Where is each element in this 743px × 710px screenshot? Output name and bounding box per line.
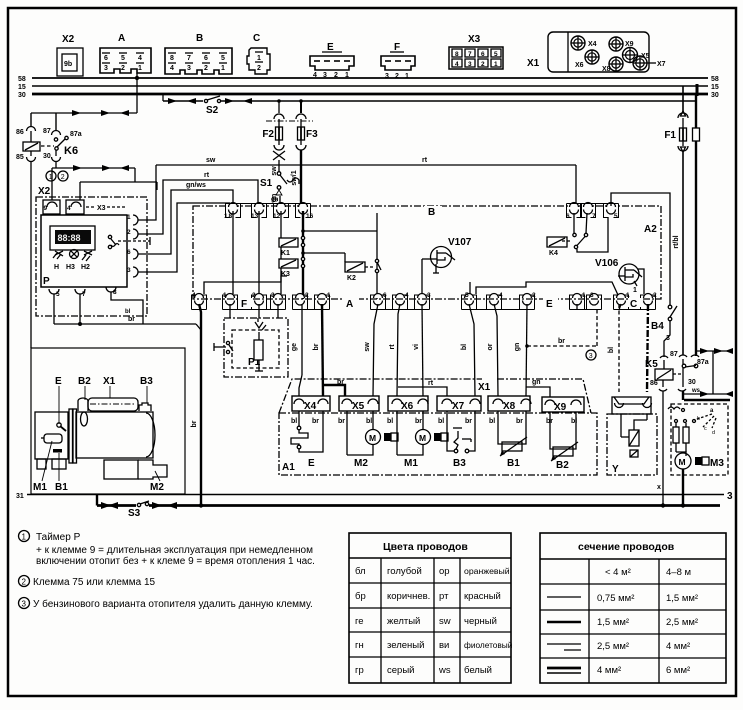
svg-text:2: 2 <box>532 292 536 299</box>
lamp H <box>53 251 63 271</box>
temp sensor B1 <box>489 411 527 469</box>
svg-text:B3: B3 <box>140 376 153 387</box>
svg-text:br: br <box>313 343 320 350</box>
svg-text:B: B <box>196 33 203 44</box>
wire rt <box>389 304 447 396</box>
svg-text:br: br <box>191 420 198 427</box>
connector X6 <box>388 396 428 412</box>
A2 top pin 18 <box>224 203 238 221</box>
svg-text:< 4 м²: < 4 м² <box>605 567 631 578</box>
svg-text:S1: S1 <box>260 178 273 189</box>
svg-text:4–8 м: 4–8 м <box>666 567 691 578</box>
A2 top pin 6 <box>566 203 579 221</box>
svg-text:1: 1 <box>221 65 225 72</box>
svg-text:bl: bl <box>291 418 297 425</box>
svg-text:58: 58 <box>18 76 26 83</box>
svg-text:P: P <box>43 276 50 287</box>
A2 internal hook wire left <box>204 276 287 294</box>
switch S2 line <box>163 94 697 116</box>
connector C <box>247 33 270 74</box>
svg-text:85: 85 <box>16 154 24 161</box>
K6 arrow wire lower <box>52 165 157 200</box>
svg-text:bl: bl <box>489 418 495 425</box>
wire colors table <box>349 533 513 683</box>
svg-text:+ к клемме 9 = длительная экс: + к клемме 9 = длительная эксплуатация п… <box>36 545 313 556</box>
switch B4 <box>651 305 677 357</box>
socket X8 <box>602 57 623 73</box>
svg-text:M: M <box>419 433 426 443</box>
connector X3 (top) <box>449 34 503 69</box>
svg-text:гн: гн <box>355 640 364 651</box>
svg-text:b: b <box>697 416 700 422</box>
svg-text:br: br <box>338 418 345 425</box>
svg-text:87: 87 <box>670 351 678 358</box>
svg-text:M1: M1 <box>33 482 47 493</box>
svg-text:2: 2 <box>61 174 65 181</box>
svg-text:ви: ви <box>439 640 449 651</box>
svg-text:2: 2 <box>127 229 131 236</box>
svg-text:d: d <box>712 430 715 436</box>
svg-text:4: 4 <box>170 65 174 72</box>
svg-text:3: 3 <box>590 292 594 299</box>
svg-text:1,5 мм²: 1,5 мм² <box>597 617 629 628</box>
lamp H3 <box>66 250 79 272</box>
svg-text:5: 5 <box>465 292 469 299</box>
svg-text:rt/bl: rt/bl <box>673 235 680 248</box>
svg-text:6 мм²: 6 мм² <box>666 665 690 676</box>
svg-text:H: H <box>54 264 59 271</box>
connector X5 <box>339 396 379 412</box>
junction dots S2 line <box>277 99 281 103</box>
heater body <box>35 398 167 479</box>
svg-text:B1: B1 <box>55 482 68 493</box>
connector A <box>100 33 151 73</box>
svg-text:bl: bl <box>461 344 468 350</box>
heater harness A1 box <box>279 413 597 475</box>
svg-text:7: 7 <box>468 51 472 58</box>
svg-text:ор: ор <box>439 566 450 577</box>
fuse F1 <box>664 86 688 355</box>
svg-text:Y: Y <box>612 464 619 475</box>
wire br thick pin4 down <box>191 304 201 505</box>
svg-text:30: 30 <box>18 92 26 99</box>
svg-text:коричнев.: коричнев. <box>387 591 430 602</box>
svg-text:A: A <box>118 33 125 44</box>
svg-text:K4: K4 <box>549 250 558 257</box>
wire sw <box>364 304 378 396</box>
svg-text:30: 30 <box>711 92 719 99</box>
note 3 <box>19 598 313 611</box>
svg-text:3: 3 <box>187 65 191 72</box>
svg-text:A: A <box>346 299 353 310</box>
svg-text:7: 7 <box>82 291 86 298</box>
wire S3 line with switch <box>97 494 720 519</box>
timer unit boundary <box>36 197 147 316</box>
socket X9 <box>609 37 634 51</box>
svg-text:3: 3 <box>323 72 327 79</box>
continuation arrows lower right <box>684 388 733 400</box>
A2 top pin 13 <box>251 203 264 221</box>
svg-text:br: br <box>415 418 422 425</box>
svg-text:rt: rt <box>422 157 428 164</box>
svg-text:1: 1 <box>127 214 131 221</box>
svg-text:A1: A1 <box>282 462 295 473</box>
svg-text:1: 1 <box>138 65 142 72</box>
svg-text:A2: A2 <box>644 224 657 235</box>
A2 top pin 5 <box>607 203 619 221</box>
svg-text:X3: X3 <box>97 205 106 212</box>
svg-text:1: 1 <box>22 533 27 542</box>
relay K6 <box>16 113 82 348</box>
svg-text:C: C <box>253 33 260 44</box>
svg-text:or: or <box>487 343 494 350</box>
svg-text:K1: K1 <box>281 250 290 257</box>
svg-text:B2: B2 <box>556 460 569 471</box>
svg-text:M: M <box>369 433 376 443</box>
svg-text:черный: черный <box>464 616 497 627</box>
svg-text:bl: bl <box>387 418 393 425</box>
svg-text:8: 8 <box>229 213 233 220</box>
heater pictorial labels <box>55 376 153 424</box>
svg-text:X8: X8 <box>503 401 516 412</box>
harness X1 boundary <box>279 379 591 413</box>
blower motor M2 <box>338 411 398 469</box>
svg-text:X1: X1 <box>478 382 491 393</box>
svg-text:3: 3 <box>427 292 431 299</box>
A2 pin housings <box>192 204 656 310</box>
wire br to control unit <box>54 316 201 330</box>
svg-text:0,75 мм²: 0,75 мм² <box>597 593 634 604</box>
wire pin5 to B4 <box>611 193 670 305</box>
svg-text:br: br <box>516 418 523 425</box>
svg-text:ge: ge <box>291 343 298 351</box>
svg-text:1: 1 <box>405 73 409 80</box>
svg-text:H2: H2 <box>81 264 90 271</box>
svg-text:K6: K6 <box>64 145 78 157</box>
svg-text:3: 3 <box>104 65 108 72</box>
wire gn <box>514 304 550 397</box>
socket X4 <box>571 36 597 50</box>
wire sizes table <box>540 533 726 683</box>
svg-text:фиолетовый: фиолетовый <box>464 640 513 650</box>
connector X2 pin 9 <box>38 186 60 214</box>
svg-text:sw: sw <box>439 616 451 627</box>
svg-text:4: 4 <box>138 55 142 62</box>
svg-text:gn/ws: gn/ws <box>186 182 206 189</box>
wire ge <box>291 304 302 396</box>
svg-text:B2: B2 <box>78 376 91 387</box>
svg-text:E: E <box>55 376 62 387</box>
fuse F2 <box>262 101 285 171</box>
svg-text:2: 2 <box>252 292 256 299</box>
svg-text:4 мм²: 4 мм² <box>597 665 621 676</box>
timer P box <box>41 215 127 287</box>
svg-text:12: 12 <box>273 213 281 220</box>
svg-text:C: C <box>630 299 637 310</box>
svg-text:X1: X1 <box>103 376 116 387</box>
svg-text:4: 4 <box>192 292 196 299</box>
svg-text:bl: bl <box>438 418 444 425</box>
svg-text:8: 8 <box>113 289 117 296</box>
svg-text:6: 6 <box>383 292 387 299</box>
wire pin8 <box>111 292 143 324</box>
label B top row <box>424 206 442 218</box>
bus junction bar right <box>696 84 699 96</box>
svg-text:X9: X9 <box>554 402 567 413</box>
svg-text:16: 16 <box>306 213 314 220</box>
wire pin5 down <box>53 294 55 324</box>
svg-text:88:88: 88:88 <box>58 233 81 243</box>
svg-text:9b: 9b <box>64 61 72 68</box>
svg-text:2: 2 <box>204 65 208 72</box>
svg-text:4: 4 <box>499 292 503 299</box>
svg-text:87: 87 <box>43 128 51 135</box>
connector X8 <box>488 396 531 412</box>
bus wire 15 <box>32 85 708 87</box>
svg-text:M3: M3 <box>710 458 724 469</box>
svg-text:8: 8 <box>170 55 174 62</box>
wire pin7 down <box>79 294 81 324</box>
svg-text:1: 1 <box>327 292 331 299</box>
wire bl to Y <box>608 304 619 392</box>
svg-text:30: 30 <box>688 379 696 386</box>
Y wire down <box>657 484 661 491</box>
svg-text:X4: X4 <box>304 401 317 412</box>
svg-text:F2: F2 <box>262 129 274 140</box>
svg-text:1,5 мм²: 1,5 мм² <box>666 593 698 604</box>
wire junctions bottom <box>199 503 203 507</box>
wire bridge note3 <box>525 308 597 360</box>
svg-text:br: br <box>337 379 344 386</box>
svg-text:6: 6 <box>204 55 208 62</box>
svg-text:рт: рт <box>439 591 449 602</box>
connector E <box>310 42 354 79</box>
note 1 <box>19 531 315 568</box>
pictorial leaders <box>33 441 164 493</box>
svg-text:6: 6 <box>127 249 131 256</box>
glow plug E <box>291 411 323 469</box>
svg-text:Цвета проводов: Цвета проводов <box>383 541 468 553</box>
svg-text:1: 1 <box>494 61 498 68</box>
wire X3-6 gn/ws <box>138 182 233 254</box>
transistor V107 <box>422 237 472 273</box>
continuation arrows top right <box>696 346 733 394</box>
svg-text:гр: гр <box>355 665 364 676</box>
socket X6 <box>575 50 599 69</box>
svg-text:58: 58 <box>711 76 719 83</box>
svg-text:c: c <box>704 426 707 432</box>
svg-text:br: br <box>465 418 472 425</box>
svg-text:3: 3 <box>127 267 131 274</box>
connector X2 (top) <box>57 34 83 76</box>
svg-text:4: 4 <box>455 61 459 68</box>
svg-text:gn: gn <box>271 197 279 203</box>
svg-text:желтый: желтый <box>387 616 420 627</box>
A2 internal stubs <box>232 211 234 294</box>
lamp unit P1 <box>214 304 288 377</box>
svg-text:87a: 87a <box>70 131 82 138</box>
svg-text:4: 4 <box>67 205 71 212</box>
timer display <box>50 226 95 250</box>
svg-text:сечение проводов: сечение проводов <box>578 541 675 553</box>
svg-text:2: 2 <box>305 292 309 299</box>
svg-text:У бензинового варианта отопите: У бензинового варианта отопителя удалить… <box>33 598 313 610</box>
control unit A2 box <box>193 206 661 299</box>
svg-text:gn: gn <box>532 379 541 386</box>
svg-text:K3: K3 <box>281 271 290 278</box>
svg-text:оранжевый: оранжевый <box>464 566 510 576</box>
svg-text:2,5 мм²: 2,5 мм² <box>597 641 629 652</box>
svg-text:X2: X2 <box>62 34 75 45</box>
svg-text:1: 1 <box>345 72 349 79</box>
connector F <box>381 42 415 80</box>
svg-text:ws: ws <box>691 388 701 394</box>
relay K4 <box>547 213 608 257</box>
svg-text:13: 13 <box>251 213 259 220</box>
svg-text:3: 3 <box>589 353 593 360</box>
svg-text:X6: X6 <box>401 401 414 412</box>
svg-text:E: E <box>546 299 553 310</box>
svg-text:Таймер Р: Таймер Р <box>36 532 81 543</box>
svg-text:3: 3 <box>666 335 670 342</box>
svg-text:B: B <box>428 207 435 218</box>
svg-text:F1: F1 <box>664 130 676 141</box>
svg-text:bl: bl <box>125 309 131 315</box>
svg-text:X7: X7 <box>452 401 465 412</box>
wire bl <box>461 304 475 396</box>
svg-text:3: 3 <box>468 61 472 68</box>
fuse wire 30 right <box>693 94 700 356</box>
relay K2 <box>345 213 381 299</box>
A2 top pin 12 <box>273 203 286 221</box>
svg-text:4 мм²: 4 мм² <box>666 641 690 652</box>
A2 internal hook wire right <box>476 282 618 295</box>
note 2 <box>19 576 156 589</box>
flame sensor B3 <box>438 411 475 469</box>
svg-text:B3: B3 <box>453 458 466 469</box>
socket X7 <box>633 56 666 70</box>
svg-text:6: 6 <box>481 51 485 58</box>
svg-text:бр: бр <box>355 591 366 602</box>
blower unit M3 box <box>668 404 728 506</box>
heater unit enclosure <box>31 348 185 494</box>
svg-text:1: 1 <box>626 292 630 299</box>
svg-text:3: 3 <box>727 491 733 502</box>
svg-text:B1: B1 <box>507 458 520 469</box>
note mark 2 <box>58 171 68 181</box>
svg-text:sw: sw <box>206 157 216 164</box>
switch S1 <box>260 166 299 206</box>
svg-text:86: 86 <box>650 380 658 387</box>
svg-text:M2: M2 <box>150 482 164 493</box>
wire A pin1 to bus <box>136 73 138 113</box>
svg-text:5: 5 <box>56 291 60 298</box>
svg-text:7: 7 <box>187 55 191 62</box>
wire vi <box>413 304 423 396</box>
svg-text:X6: X6 <box>575 62 584 69</box>
connector B <box>165 33 232 74</box>
A2 top pin 7 <box>584 203 597 221</box>
svg-text:4: 4 <box>313 72 317 79</box>
svg-text:rt: rt <box>389 344 396 350</box>
svg-text:6: 6 <box>104 55 108 62</box>
svg-text:2: 2 <box>481 61 485 68</box>
svg-text:ws: ws <box>438 665 451 676</box>
svg-text:F: F <box>241 299 247 310</box>
svg-text:E: E <box>308 458 315 469</box>
note mark 1 <box>46 171 56 181</box>
bus wire 58 <box>32 77 708 79</box>
svg-text:1: 1 <box>257 55 261 62</box>
temp sensor B2 <box>546 412 578 471</box>
svg-text:87a: 87a <box>697 359 709 366</box>
svg-text:1: 1 <box>49 174 53 181</box>
svg-text:5: 5 <box>221 55 225 62</box>
connector X3 pin 4 <box>66 200 126 214</box>
svg-text:серый: серый <box>387 665 414 676</box>
svg-text:15: 15 <box>711 84 719 91</box>
svg-text:9: 9 <box>44 205 48 212</box>
svg-text:M2: M2 <box>354 458 368 469</box>
svg-text:3: 3 <box>22 600 27 609</box>
svg-text:2: 2 <box>121 65 125 72</box>
P bottom pins 5 7 8 <box>49 287 117 298</box>
wire sw to pin 6 <box>156 157 576 206</box>
svg-text:8: 8 <box>455 51 459 58</box>
svg-text:V106: V106 <box>595 258 619 269</box>
svg-text:V107: V107 <box>448 237 472 248</box>
svg-text:rt: rt <box>428 380 434 387</box>
solenoid valve Y box <box>607 397 657 475</box>
svg-text:S2: S2 <box>206 105 219 116</box>
pin stubs <box>576 304 578 310</box>
svg-text:H3: H3 <box>66 264 75 271</box>
svg-text:2: 2 <box>22 578 27 587</box>
svg-text:голубой: голубой <box>387 566 422 577</box>
svg-text:br: br <box>312 418 319 425</box>
K6 arrow wire upper <box>31 110 137 116</box>
svg-text:vi: vi <box>413 344 420 350</box>
svg-text:бл: бл <box>355 566 366 577</box>
svg-text:Клемма 75 или клемма 15: Клемма 75 или клемма 15 <box>33 577 156 588</box>
relay K5 <box>645 351 709 505</box>
svg-text:ге: ге <box>355 616 364 627</box>
wire C2 to Y <box>647 304 648 392</box>
svg-text:bl: bl <box>608 347 615 353</box>
svg-text:M1: M1 <box>404 458 418 469</box>
svg-text:5: 5 <box>614 213 618 220</box>
svg-text:30: 30 <box>43 153 51 160</box>
timer internal switch <box>108 235 150 248</box>
svg-text:gn: gn <box>514 343 521 352</box>
bus wire 30 <box>32 93 708 96</box>
wire br A1 <box>313 304 345 396</box>
socket X5 <box>622 47 650 63</box>
svg-text:X7: X7 <box>657 61 666 68</box>
svg-text:5: 5 <box>121 55 125 62</box>
svg-text:2: 2 <box>257 65 261 72</box>
connector X7 <box>437 396 481 412</box>
svg-text:красный: красный <box>464 591 501 602</box>
wire X3-2 rt <box>138 172 258 234</box>
svg-text:br: br <box>558 338 565 345</box>
svg-text:3: 3 <box>271 292 275 299</box>
connector X4 <box>292 396 330 412</box>
svg-text:1: 1 <box>633 287 637 294</box>
svg-text:F3: F3 <box>306 129 318 140</box>
svg-text:5: 5 <box>494 51 498 58</box>
fuse F3 <box>291 101 318 206</box>
